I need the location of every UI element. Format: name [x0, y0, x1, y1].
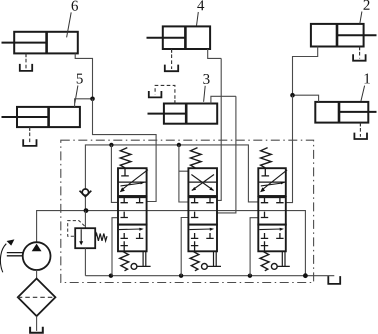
- check valve: [80, 189, 92, 197]
- node return-2: [179, 274, 183, 278]
- cylinder 3: [148, 104, 218, 124]
- drain line cyl3 (dashed): [174, 100, 176, 103]
- supply drop left valve: [111, 145, 118, 203]
- cylinder 5: [2, 107, 80, 127]
- node pump tee: [84, 208, 89, 213]
- label 5 leader: [75, 86, 78, 104]
- node supply-left: [109, 143, 113, 147]
- cylinder 4: [147, 26, 211, 49]
- pilot circle left valve: [131, 264, 137, 270]
- manifold block boundary (dash-dot): [61, 140, 314, 282]
- wire cyl1 port to junction: [293, 95, 319, 102]
- pump: [0, 239, 50, 272]
- cylinder 2: [311, 24, 377, 47]
- pilot linkage right valve: [277, 251, 290, 266]
- tank under filter: [30, 327, 43, 333]
- pilot circle middle valve: [202, 264, 208, 270]
- label 4 leader: [197, 12, 199, 26]
- wire cyl4 port down-right: [208, 49, 222, 58]
- wire feed cyl4 to middle valve: [217, 58, 221, 200]
- valve box3 right: [258, 225, 286, 252]
- spring bottom middle valve: [190, 251, 199, 270]
- valve box3 left: [118, 225, 147, 252]
- tank at return outlet: [328, 276, 340, 284]
- valve box1 left (position with metering arrow): [118, 168, 148, 196]
- node return-1: [109, 274, 113, 278]
- node return-3: [248, 274, 252, 278]
- tank drop right valve: [250, 218, 258, 276]
- drain line cyl5 (dashed): [29, 127, 31, 131]
- wire feed cyl5/6 to left valve: [93, 99, 157, 202]
- spring top left valve: [120, 148, 131, 169]
- drain line cyl6 (dashed): [25, 53, 27, 57]
- drain line cyl1 (dashed): [359, 123, 361, 127]
- valve box3 middle: [188, 225, 217, 252]
- tank return rail: [85, 275, 334, 277]
- label 3: [203, 74, 209, 84]
- valve box2 right: [258, 197, 286, 224]
- tank drop left valve: [112, 218, 118, 276]
- junction node cyl5/6: [90, 97, 95, 102]
- filter: [18, 270, 56, 331]
- cylinder 6: [2, 32, 78, 54]
- wire cyl5 port to junction: [75, 99, 93, 107]
- spring top middle valve: [191, 148, 202, 169]
- drain line cyl4 (dashed): [171, 49, 173, 53]
- tank drop middle valve: [181, 218, 188, 276]
- label 2: [364, 0, 370, 10]
- spring bottom left valve: [120, 251, 129, 270]
- wire cyl2 port to junction: [293, 47, 318, 96]
- label 5: [77, 74, 83, 84]
- tank under cyl2: [353, 54, 366, 60]
- junction node cyl1/2: [290, 93, 295, 98]
- valve box1 right (position with metering arrow): [258, 168, 287, 196]
- label 1: [365, 73, 370, 83]
- supply rail with check valve riser: [85, 145, 258, 211]
- label 2 leader: [360, 12, 362, 24]
- tank under cyl5: [23, 139, 36, 146]
- cylinder 1: [315, 102, 376, 123]
- node return-4: [303, 273, 308, 278]
- tank under cyl4: [165, 65, 178, 72]
- node supply-mid: [177, 143, 181, 147]
- wire cyl3 port up-right: [211, 96, 236, 103]
- spring top right valve: [261, 148, 272, 169]
- valve box1 middle (crossed arrows): [188, 168, 217, 196]
- tank under cyl1: [354, 133, 367, 139]
- relief valve: [68, 211, 107, 276]
- label 6: [72, 1, 78, 11]
- label 1 leader: [361, 86, 365, 102]
- label 3 leader: [204, 86, 206, 102]
- tank under cyl6: [20, 64, 32, 71]
- pump open-center rail: [37, 211, 306, 276]
- valve box2 left: [118, 197, 147, 224]
- valve box2 middle: [188, 197, 217, 224]
- label 4: [197, 0, 204, 10]
- pilot circle right valve: [271, 264, 277, 270]
- drain line cyl2 (dashed): [359, 47, 361, 51]
- wire cyl6 port to junction: [75, 53, 92, 98]
- pilot linkage middle valve: [207, 251, 221, 266]
- label 6 leader: [67, 12, 72, 37]
- spring bottom right valve: [260, 251, 269, 270]
- tank for cyl3 drain: [149, 91, 162, 97]
- wire feed cyl3 to middle valve: [217, 96, 236, 213]
- pilot linkage left valve: [137, 251, 151, 266]
- supply drop middle valve: [179, 145, 189, 202]
- wire feed cyl1/2 to right valve: [286, 95, 293, 202]
